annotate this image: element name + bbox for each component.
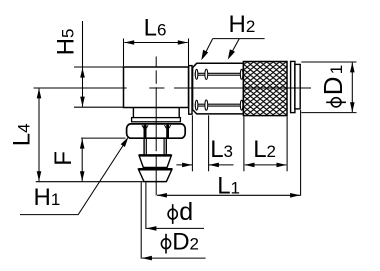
dimension phi D2 bbox=[140, 182, 142, 258]
hex chamfer vesica pair middle (hex1/hex2 boundary) bbox=[205, 69, 208, 79]
svg-text:F: F bbox=[50, 151, 77, 166]
phi symbol bbox=[168, 209, 177, 219]
dimension L6 bbox=[124, 39, 189, 67]
phi symbol bbox=[331, 98, 341, 107]
tube end extension line (also bottom edge of barb 2) bbox=[36, 181, 167, 183]
dimension F bbox=[81, 137, 126, 139]
barb stem inner walls bbox=[146, 139, 164, 156]
nut chamfer tick left facet bbox=[142, 125, 144, 128]
nut chamfer tick middle facet left bbox=[147, 125, 149, 128]
barb cone 1 bbox=[139, 155, 171, 167]
end ring 1 bbox=[291, 61, 295, 112]
hex section (two hexes) bbox=[193, 63, 244, 114]
svg-text:1: 1 bbox=[327, 65, 346, 74]
dimension phiD1 bbox=[301, 61, 356, 63]
svg-text:d: d bbox=[179, 198, 193, 226]
phi symbol bbox=[161, 239, 170, 249]
hex facet line upper a bbox=[195, 72, 244, 74]
elbow body bbox=[124, 67, 189, 108]
knurled sleeve bbox=[243, 62, 287, 116]
washer between body and hex bbox=[189, 66, 192, 115]
dimension L2 bbox=[243, 117, 245, 172]
dimension phi d bbox=[145, 182, 147, 229]
hex nut H1 bbox=[127, 124, 186, 138]
hex chamfer vesica pair left bbox=[195, 69, 198, 79]
neck below body bbox=[133, 108, 179, 118]
barb stem outer walls bbox=[144, 139, 166, 156]
dimension L3 bbox=[191, 115, 193, 171]
horizontal centerline bbox=[34, 87, 312, 89]
nut facet edge right bbox=[166, 125, 169, 138]
dimension H5 bbox=[74, 66, 124, 68]
nut chamfer tick middle facet right bbox=[164, 125, 166, 128]
nut facet edge left bbox=[144, 125, 147, 138]
dimension L4 bbox=[38, 89, 40, 182]
hex facet line upper b bbox=[195, 74, 244, 76]
hex chamfer vesica pair right bbox=[240, 69, 243, 79]
nut chamfer tick right facet bbox=[169, 125, 171, 128]
dimension L1 bbox=[300, 110, 302, 196]
end ring 2 bbox=[295, 64, 300, 109]
svg-text:D: D bbox=[318, 77, 348, 96]
hex facet line lower a bbox=[195, 103, 244, 105]
vertical centerline bbox=[155, 57, 157, 196]
flange below neck bbox=[132, 118, 181, 122]
hex facet line lower b bbox=[195, 105, 244, 107]
barb cone 2 bbox=[138, 169, 172, 181]
